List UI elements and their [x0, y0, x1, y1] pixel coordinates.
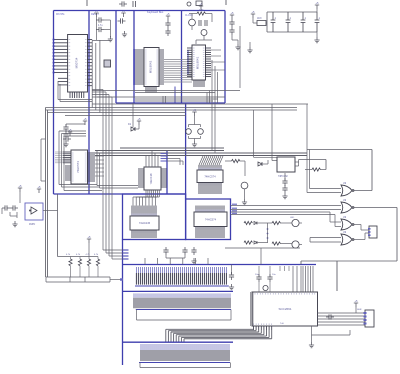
- resistor R3 4.7k: [197, 12, 205, 15]
- capacitor C13: [315, 12, 320, 32]
- U2 right pin comb: [159, 50, 164, 84]
- resistor R23: [96, 259, 99, 266]
- net label dashes: [232, 204, 237, 213]
- wire: [231, 265, 233, 275]
- U7 bottom pin comb: [196, 227, 224, 239]
- resistor R15: [272, 242, 280, 245]
- crystal Y2: [263, 285, 268, 290]
- wire: [253, 18, 267, 23]
- transistor Q8: [198, 129, 204, 135]
- wire: [336, 261, 338, 291]
- U4 top pin wires: [146, 151, 158, 168]
- bus wire C: [46, 109, 298, 111]
- svg-text:SER: SER: [357, 309, 362, 311]
- power +5V: [87, 239, 91, 243]
- power +5V: [137, 121, 141, 125]
- wire clock out: [43, 210, 58, 212]
- power +5V: [121, 13, 125, 17]
- U2 left pin comb: [135, 50, 145, 84]
- bus wire D: [48, 112, 187, 114]
- wires U8 to J2: [318, 313, 366, 325]
- wires U3 to edge: [211, 50, 225, 70]
- wires from sheet pins: [167, 159, 183, 166]
- wire: [305, 169, 326, 171]
- connector J4 label ticks: [134, 293, 230, 297]
- U8 inner pin numbers: [254, 293, 315, 325]
- wire: [97, 266, 99, 277]
- power +5V: [192, 112, 196, 116]
- connector J1 feed wires: [145, 258, 208, 265]
- ground: [314, 37, 319, 43]
- resistor R21: [78, 259, 81, 266]
- loop under J4: [137, 310, 232, 321]
- IC U2: [144, 48, 159, 87]
- svg-text:M37451: M37451: [56, 13, 65, 16]
- gate input wires: [307, 104, 341, 193]
- diode D3: [254, 241, 257, 244]
- capacitor C20: [163, 247, 168, 255]
- resistor R14: [272, 221, 280, 224]
- svg-text:74HC138: 74HC138: [149, 173, 153, 185]
- oscillator wiring: [189, 14, 212, 31]
- sheet pin nubs U1: [53, 39, 55, 74]
- ground: [309, 342, 314, 348]
- ferrite bead L1: [257, 21, 266, 26]
- connector J5 base: [139, 362, 230, 364]
- gate1 output: [352, 150, 372, 191]
- svg-text:Keyboard Bus: Keyboard Bus: [147, 10, 164, 14]
- sheet pin arrows: [123, 250, 129, 259]
- wire: [249, 42, 251, 47]
- U1 left pin comb: [54, 40, 67, 73]
- U5 inner pin numbers: [72, 153, 87, 181]
- capacitor C28: [282, 178, 287, 186]
- capacitor C6: [165, 28, 170, 36]
- ground: [242, 199, 247, 205]
- U11 bottom pin comb: [132, 230, 156, 238]
- svg-text:74HC573: 74HC573: [76, 161, 80, 173]
- bus U8 to connector: [166, 329, 272, 341]
- U3 bottom pin comb: [194, 80, 204, 87]
- capacitor C1 4.7u: [96, 17, 104, 22]
- wire: [316, 32, 318, 37]
- wire: [262, 160, 268, 164]
- sheet border V7: [185, 103, 187, 199]
- connector J1 base: [135, 285, 229, 287]
- wires to gates: [231, 206, 342, 227]
- power +5V: [83, 121, 87, 125]
- diode D2: [254, 222, 257, 225]
- sheet border H6 connector B top: [123, 290, 234, 292]
- wire: [355, 307, 357, 313]
- ground: [12, 221, 17, 227]
- IC U11: [130, 216, 159, 230]
- wire: [259, 266, 270, 292]
- U4 right pin comb: [161, 169, 167, 187]
- power +5V: [18, 188, 22, 192]
- U4 bottom fan wires: [133, 190, 159, 206]
- wire to gate: [307, 149, 372, 151]
- power +5V: [166, 16, 170, 20]
- blue net wire: [174, 87, 176, 104]
- resistor R13: [244, 241, 252, 244]
- wire: [79, 266, 81, 277]
- IC U3: [192, 45, 206, 80]
- ground: [63, 141, 68, 147]
- connector J4 pins: [134, 298, 230, 308]
- transistor Q5: [258, 162, 262, 166]
- sheet border V3: [115, 11, 117, 104]
- wire: [57, 194, 59, 257]
- blue net wire: [187, 50, 189, 74]
- U5 right pin comb: [88, 153, 96, 181]
- gate U9D: [341, 234, 352, 245]
- wire: [88, 266, 90, 277]
- wire stub: [86, 0, 88, 6]
- IC U10: [277, 157, 295, 172]
- U7 pin numbers top: [196, 209, 224, 211]
- transistor Q7: [186, 129, 192, 135]
- bus wire E: [65, 115, 186, 117]
- wires U10 out: [295, 160, 299, 167]
- capacitor bank rails: [267, 12, 317, 32]
- transistor Q2: [201, 30, 207, 36]
- U5 left lower pin comb: [65, 166, 71, 180]
- connector J5 label ticks: [141, 344, 229, 350]
- wire: [64, 136, 102, 191]
- gate4 output: [352, 233, 369, 240]
- IC U5: [71, 150, 88, 184]
- U11 pin numbers bottom: [132, 231, 156, 233]
- power +5V: [315, 5, 319, 9]
- wire: [225, 161, 245, 176]
- U3 right pin comb: [206, 48, 212, 77]
- sheet pin nubs U2: [133, 49, 135, 84]
- resistor R22: [87, 259, 90, 266]
- wire: [2, 208, 17, 218]
- sheet border V2: [88, 11, 90, 195]
- svg-text:74HC574: 74HC574: [205, 217, 217, 221]
- connector J4 base: [136, 309, 231, 311]
- sheet border V8: [122, 240, 124, 366]
- capacitor C29: [282, 185, 287, 193]
- resistor R10: [312, 168, 320, 171]
- U8 bottom pin comb: [254, 326, 272, 330]
- wire: [95, 17, 97, 40]
- wire: [97, 257, 99, 260]
- capacitor C16: [63, 131, 68, 139]
- transistor pair wiring: [189, 116, 201, 141]
- wire bus right of U1: [92, 40, 100, 112]
- capacitor C2 .1u: [96, 27, 104, 32]
- wire: [79, 257, 81, 260]
- sheet border V1: [53, 11, 55, 195]
- svg-text:4.7k: 4.7k: [199, 9, 204, 12]
- power +5V: [354, 303, 358, 307]
- wire: [299, 160, 326, 170]
- wire: [280, 223, 302, 245]
- IC U1: [68, 35, 88, 93]
- wire stub: [225, 0, 227, 5]
- resistor R12: [244, 221, 252, 224]
- vertical wire bundle: [92, 90, 112, 260]
- sheet box bus buffer: [123, 194, 186, 240]
- capacitor C21: [182, 247, 187, 255]
- jack J3: [369, 226, 377, 238]
- wire: [70, 257, 72, 260]
- loop under J5: [140, 363, 231, 368]
- capacitor C11: [286, 12, 291, 32]
- gate U9C: [341, 219, 352, 230]
- wire: [232, 35, 238, 44]
- capacitor C10: [271, 12, 276, 32]
- U3 left pin comb: [187, 48, 192, 77]
- ground: [247, 47, 252, 53]
- sheet border top H1: [54, 10, 226, 12]
- wire loop under U2: [135, 92, 215, 94]
- wire loop: [41, 139, 46, 181]
- ground: [229, 284, 234, 290]
- wire: [88, 257, 90, 260]
- jumper JP1: [133, 1, 136, 7]
- U6 top pin comb: [199, 165, 221, 170]
- U7 pin numbers bottom: [196, 227, 224, 229]
- capacitor C32: [326, 314, 334, 319]
- wire: [284, 173, 286, 181]
- svg-text:M5L8041: M5L8041: [196, 56, 200, 69]
- oscillator Y1: [189, 19, 196, 26]
- transistor Q6: [241, 182, 248, 189]
- capacitor C26: [10, 205, 18, 210]
- capacitor C3: [119, 1, 127, 6]
- capacitor C33: [229, 272, 234, 280]
- IC U8: [252, 292, 318, 326]
- IC U6: [197, 170, 223, 183]
- capacitor C31: [267, 274, 272, 282]
- wire: [133, 103, 139, 129]
- bus wire A: [92, 103, 308, 105]
- wire: [312, 326, 351, 342]
- sheet border H2: [116, 102, 225, 104]
- capacitor C30: [256, 274, 261, 282]
- wires right of U5: [95, 156, 104, 176]
- wire drops: [163, 91, 210, 104]
- U8 inner wires: [251, 292, 254, 326]
- U6 pin numbers bottom: [199, 183, 221, 185]
- gate U9B: [341, 202, 352, 213]
- sheet border H5 connector A top: [123, 264, 317, 266]
- svg-text:4MHz: 4MHz: [29, 223, 36, 226]
- U2 bottom pin comb: [146, 87, 156, 93]
- U5 left pin comb: [63, 152, 71, 163]
- capacitor C8: [229, 19, 234, 27]
- gate2 output loop: [301, 208, 397, 265]
- wire: [166, 255, 185, 258]
- ground: [191, 258, 196, 264]
- oscillator wiring: [196, 36, 212, 45]
- wire: [316, 9, 318, 12]
- wires under top boxes: [97, 97, 225, 101]
- U11 pin numbers top: [132, 213, 156, 215]
- connector J1 pins: [136, 273, 226, 285]
- U6 bottom pin comb: [199, 183, 221, 195]
- U3 inner pin numbers: [193, 48, 205, 77]
- connector J1 sparse ticks: [280, 266, 289, 271]
- wire: [88, 243, 90, 257]
- wires to sheet pins: [103, 250, 123, 259]
- ground: [108, 36, 113, 42]
- diode D1: [131, 127, 135, 131]
- data bus: [95, 148, 307, 156]
- svg-text:RESET: RESET: [91, 13, 100, 16]
- U2-U3 wire bundle: [164, 60, 192, 83]
- svg-text:TxD: TxD: [280, 323, 284, 325]
- power +5V: [68, 132, 72, 136]
- svg-text:74HC574: 74HC574: [204, 174, 216, 178]
- wire: [92, 39, 110, 41]
- sheet border V5: [181, 11, 183, 104]
- wire: [66, 124, 85, 127]
- ground: [235, 44, 240, 50]
- U11 top pin comb: [132, 206, 156, 217]
- bus wire B: [46, 107, 298, 109]
- U6 pin numbers top: [199, 168, 221, 170]
- sheet border V7b: [166, 150, 168, 194]
- power +5V: [94, 13, 98, 17]
- wire: [244, 189, 246, 199]
- wire loop around U5: [59, 131, 100, 187]
- capacitor C25: [2, 205, 10, 210]
- power +5V: [230, 15, 234, 19]
- svg-text:AVX: AVX: [257, 17, 262, 20]
- sheet border V4: [133, 11, 135, 104]
- capacitor C22: [191, 247, 196, 255]
- power +5V: [251, 14, 255, 18]
- gate U9A: [341, 185, 352, 196]
- IC U4: [144, 167, 161, 190]
- wire: [225, 248, 300, 265]
- wire: [104, 20, 110, 37]
- svg-text:SCC2691: SCC2691: [278, 307, 291, 311]
- U7 top pin comb: [196, 206, 224, 213]
- ground: [282, 193, 287, 199]
- connector J5 pins: [141, 350, 229, 361]
- U5 left pin wires: [55, 152, 63, 163]
- wires to U8: [293, 266, 313, 292]
- sheet box latch: [186, 199, 231, 240]
- IC U7: [194, 212, 227, 227]
- wire: [257, 223, 272, 243]
- pad P1: [187, 2, 191, 6]
- bus drop wires: [97, 151, 138, 189]
- resistor rail: [58, 256, 99, 258]
- wires U10 in: [254, 104, 278, 161]
- svg-text:4.7u: 4.7u: [98, 25, 103, 27]
- connector J2: [365, 310, 374, 327]
- svg-text:74HC245: 74HC245: [139, 221, 151, 225]
- svg-text:M5L8042: M5L8042: [149, 60, 153, 73]
- sheet border H3: [54, 193, 187, 195]
- long return wire: [92, 26, 240, 91]
- LED DS2: [292, 241, 299, 248]
- wire: [19, 192, 21, 203]
- transistor Q1: [199, 20, 207, 26]
- crystal X2: [104, 60, 111, 67]
- capacitor C5: [165, 20, 170, 28]
- U1 right pin comb: [88, 40, 93, 86]
- resistor R11: [232, 159, 240, 162]
- LED DS1: [292, 219, 299, 226]
- ground: [122, 31, 127, 37]
- svg-text:74HC132: 74HC132: [278, 176, 288, 178]
- U1 bottom pin comb: [70, 92, 84, 98]
- capacitor C12: [301, 12, 306, 32]
- capacitor C15: [63, 124, 68, 132]
- sheet pin arrows mid: [161, 154, 167, 162]
- power +5V: [199, 6, 203, 10]
- jumper JP2: [196, 1, 202, 6]
- wires U3 down: [212, 60, 218, 153]
- wire box: [46, 277, 121, 282]
- U2 inner pin numbers: [145, 50, 158, 84]
- connector J1 label ticks: [136, 267, 226, 273]
- capacitor C19: [63, 136, 71, 141]
- svg-text:M50734: M50734: [75, 57, 79, 68]
- wire: [70, 266, 72, 277]
- resistor R20: [69, 259, 72, 266]
- left vertical bus: [46, 108, 48, 278]
- U1 left lower pins: [58, 78, 68, 85]
- wires under U1: [58, 81, 92, 102]
- capacitor C4: [118, 18, 126, 23]
- capacitor C9: [229, 27, 234, 35]
- sheet border H7 connector C top: [123, 341, 234, 343]
- U4 left pin comb: [138, 169, 144, 187]
- U6 bus fan: [199, 156, 223, 165]
- oscillator module X1: [25, 203, 43, 220]
- sheet pin: [120, 278, 123, 280]
- sheet border V6: [224, 11, 226, 104]
- U1 inner pin numbers: [69, 40, 87, 86]
- junction dots: [267, 228, 269, 239]
- power +5V: [37, 189, 41, 193]
- ground: [192, 141, 197, 147]
- svg-text:LED: LED: [290, 217, 295, 219]
- gate3 output: [352, 225, 369, 231]
- gate4 inputs: [310, 238, 341, 243]
